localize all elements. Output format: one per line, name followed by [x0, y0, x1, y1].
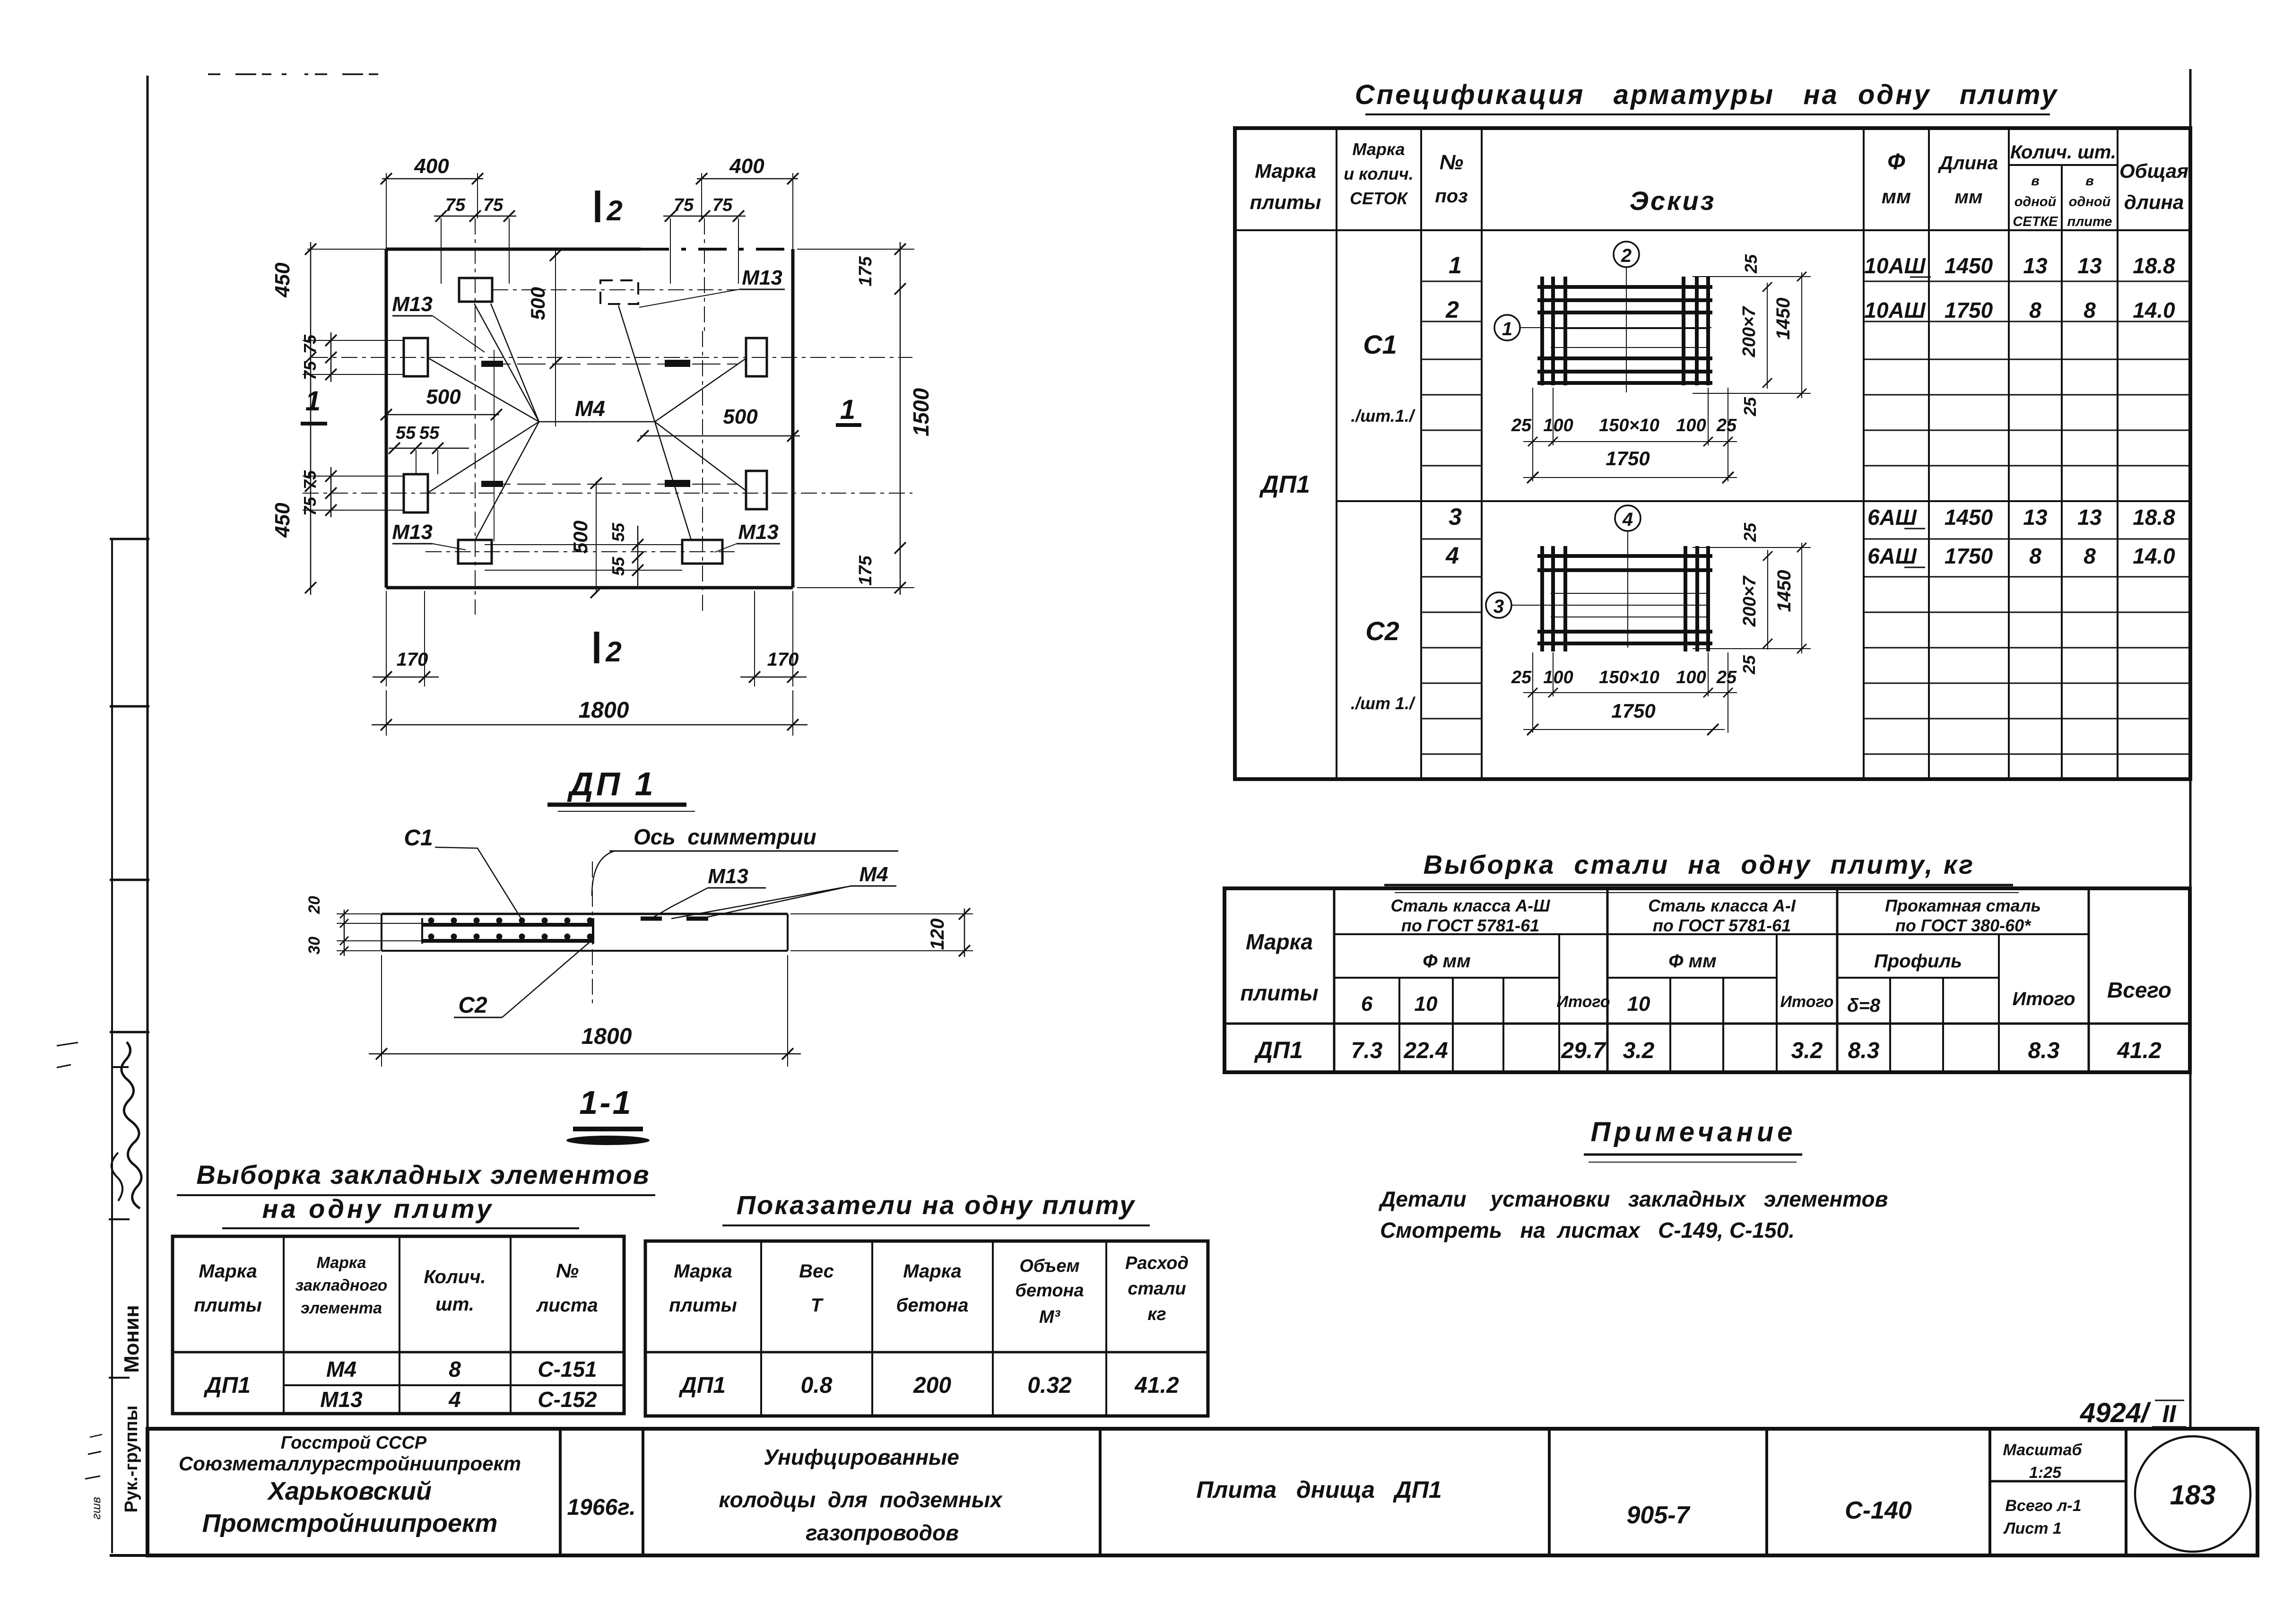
svg-text:10: 10 [1627, 992, 1650, 1016]
svg-text:Марка: Марка [1255, 160, 1316, 182]
svg-text:120: 120 [927, 919, 948, 950]
svg-text:Промстройниипроект: Промстройниипроект [202, 1509, 498, 1537]
svg-text:С1: С1 [1363, 330, 1397, 359]
svg-text:0.32: 0.32 [1027, 1373, 1072, 1398]
svg-text:ДП 1: ДП 1 [567, 765, 656, 802]
svg-text:Ось симметрии: Ось симметрии [634, 825, 816, 849]
svg-text:75: 75 [300, 496, 320, 516]
svg-text:1750: 1750 [1606, 447, 1650, 469]
svg-text:М4: М4 [326, 1357, 356, 1381]
svg-text:Ф мм: Ф мм [1668, 951, 1717, 972]
svg-text:./шт 1./: ./шт 1./ [1351, 694, 1416, 713]
svg-text:14.0: 14.0 [2133, 298, 2175, 322]
svg-text:Всего: Всего [2107, 978, 2171, 1002]
svg-text:25: 25 [1716, 416, 1737, 435]
svg-text:200: 200 [913, 1373, 951, 1398]
svg-text:25: 25 [1740, 522, 1760, 542]
svg-text:II: II [2162, 1400, 2177, 1428]
svg-text:одной: одной [2014, 194, 2057, 209]
svg-text:Итого: Итого [1556, 993, 1610, 1011]
svg-text:75: 75 [300, 334, 320, 354]
svg-text:С-151: С-151 [538, 1357, 597, 1381]
svg-text:3: 3 [1449, 504, 1462, 530]
svg-text:13: 13 [2077, 253, 2102, 278]
svg-text:200×7: 200×7 [1740, 575, 1760, 627]
svg-text:55: 55 [608, 522, 628, 542]
svg-text:8: 8 [2029, 544, 2041, 568]
svg-text:Ф мм: Ф мм [1423, 951, 1471, 972]
svg-text:8: 8 [449, 1357, 461, 1381]
svg-text:2: 2 [606, 195, 622, 226]
svg-text:400: 400 [729, 155, 764, 178]
svg-text:450: 450 [271, 262, 294, 298]
svg-text:С-140: С-140 [1845, 1497, 1912, 1524]
svg-text:8: 8 [2084, 298, 2096, 322]
svg-text:30: 30 [305, 937, 323, 955]
svg-text:М4: М4 [859, 863, 888, 886]
svg-text:Объем: Объем [1019, 1256, 1079, 1276]
svg-text:по ГОСТ 380-60*: по ГОСТ 380-60* [1895, 916, 2032, 935]
svg-text:25: 25 [1511, 668, 1532, 687]
svg-text:500: 500 [426, 385, 461, 408]
svg-text:13: 13 [2023, 505, 2048, 530]
svg-text:М13: М13 [708, 865, 748, 888]
svg-text:3.2: 3.2 [1623, 1038, 1655, 1063]
svg-text:Унифцированные: Унифцированные [764, 1445, 959, 1469]
svg-text:колодцы для подземных: колодцы для подземных [719, 1487, 1003, 1512]
svg-text:1750: 1750 [1945, 298, 1993, 322]
svg-text:25: 25 [1716, 668, 1737, 687]
svg-text:Профиль: Профиль [1874, 951, 1962, 972]
svg-text:100: 100 [1543, 668, 1573, 687]
svg-text:41.2: 41.2 [1134, 1373, 1179, 1398]
svg-text:1750: 1750 [1945, 544, 1993, 568]
svg-text:13: 13 [2077, 505, 2102, 530]
svg-text:плиты: плиты [194, 1295, 261, 1316]
svg-text:6: 6 [1361, 992, 1373, 1016]
svg-text:мм: мм [1954, 187, 1982, 208]
svg-text:в: в [2085, 174, 2094, 189]
svg-text:плиты: плиты [1250, 191, 1321, 213]
svg-text:длина: длина [2124, 191, 2184, 213]
svg-text:Марка: Марка [674, 1261, 732, 1282]
svg-text:1800: 1800 [579, 698, 629, 723]
svg-text:14.0: 14.0 [2133, 544, 2175, 568]
svg-text:Вес: Вес [799, 1261, 834, 1282]
svg-text:по ГОСТ 5781-61: по ГОСТ 5781-61 [1653, 916, 1791, 935]
svg-text:25: 25 [1741, 254, 1761, 274]
svg-text:75: 75 [300, 470, 320, 489]
svg-text:Масштаб: Масштаб [2003, 1441, 2083, 1459]
svg-text:500: 500 [569, 521, 591, 554]
svg-text:М4: М4 [575, 396, 605, 421]
svg-text:75: 75 [445, 195, 466, 215]
svg-text:Показатели на одну плиту: Показатели на одну плиту [737, 1190, 1136, 1220]
svg-text:ДП1: ДП1 [203, 1373, 251, 1398]
svg-text:41.2: 41.2 [2117, 1038, 2162, 1063]
svg-text:1450: 1450 [1774, 570, 1795, 612]
svg-text:Колич. шт.: Колич. шт. [2010, 142, 2116, 163]
svg-text:С2: С2 [1365, 616, 1399, 646]
svg-text:СЕТОК: СЕТОК [1350, 189, 1409, 208]
svg-text:6АШ: 6АШ [1867, 505, 1917, 530]
svg-text:500: 500 [723, 405, 758, 428]
svg-text:бетона: бетона [896, 1295, 969, 1316]
svg-text:ДП1: ДП1 [1254, 1037, 1303, 1063]
svg-text:10АШ: 10АШ [1864, 253, 1926, 278]
svg-text:1-1: 1-1 [579, 1084, 633, 1121]
svg-text:Сталь класса А-Ш: Сталь класса А-Ш [1390, 896, 1550, 915]
svg-text:на одну плиту: на одну плиту [262, 1194, 495, 1224]
svg-text:2: 2 [605, 636, 621, 668]
svg-text:75: 75 [674, 195, 694, 215]
svg-text:элемента: элемента [301, 1299, 382, 1317]
svg-text:100: 100 [1676, 668, 1706, 687]
svg-text:8: 8 [2029, 298, 2041, 322]
svg-text:18.8: 18.8 [2133, 253, 2175, 278]
svg-text:СЕТКЕ: СЕТКЕ [2013, 214, 2058, 229]
svg-text:М13: М13 [392, 521, 433, 544]
svg-text:8.3: 8.3 [1848, 1038, 1880, 1063]
svg-text:450: 450 [271, 503, 294, 538]
svg-text:плите: плите [2067, 214, 2112, 229]
svg-text:№: № [1440, 151, 1463, 174]
svg-text:400: 400 [414, 155, 449, 178]
svg-text:20: 20 [305, 896, 323, 914]
svg-text:500: 500 [527, 287, 549, 320]
svg-text:1966г.: 1966г. [567, 1495, 635, 1520]
svg-text:29.7: 29.7 [1561, 1038, 1606, 1063]
svg-text:листа: листа [536, 1295, 598, 1316]
svg-text:Выборка стали на одну плит: Выборка стали на одну плиту, кг [1424, 850, 1975, 879]
svg-text:в: в [2031, 174, 2040, 189]
svg-text:170: 170 [767, 649, 799, 670]
svg-text:ДП1: ДП1 [678, 1373, 726, 1398]
svg-text:по ГОСТ 5781-61: по ГОСТ 5781-61 [1401, 916, 1539, 935]
svg-text:кг: кг [1147, 1304, 1166, 1324]
svg-text:0.8: 0.8 [801, 1373, 833, 1398]
svg-text:75: 75 [483, 195, 504, 215]
svg-text:6АШ: 6АШ [1867, 544, 1917, 568]
svg-text:13: 13 [2023, 253, 2048, 278]
svg-text:Итого: Итого [2012, 989, 2075, 1009]
svg-text:стали: стали [1128, 1279, 1186, 1299]
svg-text:175: 175 [856, 256, 876, 286]
svg-text:Госстрой СССР: Госстрой СССР [281, 1433, 427, 1453]
svg-text:175: 175 [856, 555, 876, 585]
svg-text:150×10: 150×10 [1599, 668, 1659, 687]
svg-text:Колич.: Колич. [424, 1267, 486, 1287]
svg-text:Марка: Марка [903, 1261, 962, 1282]
svg-text:δ=8: δ=8 [1847, 995, 1881, 1016]
svg-text:25: 25 [1511, 416, 1532, 435]
svg-text:55: 55 [419, 423, 440, 443]
svg-text:1450: 1450 [1945, 253, 1993, 278]
svg-text:2: 2 [1445, 296, 1459, 323]
svg-text:75: 75 [712, 195, 733, 215]
svg-text:1750: 1750 [1611, 700, 1655, 722]
svg-text:1450: 1450 [1773, 298, 1794, 340]
svg-text:Общая: Общая [2119, 160, 2188, 182]
svg-text:Спецификация арматуры на: Спецификация арматуры на одну плиту [1355, 79, 2059, 110]
svg-text:поз: поз [1435, 186, 1467, 207]
svg-text:Расход: Расход [1125, 1253, 1189, 1273]
svg-text:Харьковский: Харьковский [267, 1477, 432, 1505]
svg-text:Марка: Марка [1352, 139, 1405, 159]
svg-text:3: 3 [1493, 596, 1504, 617]
svg-text:1800: 1800 [582, 1024, 632, 1049]
svg-text:905-7: 905-7 [1627, 1502, 1691, 1529]
svg-text:Марка: Марка [199, 1261, 257, 1282]
svg-text:Детали установки закладны: Детали установки закладных элементов [1378, 1187, 1888, 1211]
svg-text:С1: С1 [404, 825, 433, 851]
svg-text:Союзметаллургстройниипроект: Союзметаллургстройниипроект [179, 1452, 521, 1475]
svg-text:М13: М13 [742, 266, 782, 289]
svg-text:шт.: шт. [435, 1294, 474, 1315]
svg-text:Марка: Марка [317, 1254, 366, 1272]
svg-text:55: 55 [608, 556, 628, 576]
svg-text:183: 183 [2170, 1480, 2216, 1511]
svg-text:плиты: плиты [669, 1295, 737, 1316]
svg-text:закладного: закладного [295, 1277, 388, 1294]
svg-text:М13: М13 [392, 293, 433, 316]
svg-text:бетона: бетона [1015, 1281, 1084, 1301]
svg-text:4: 4 [1445, 542, 1459, 569]
svg-text:3.2: 3.2 [1791, 1038, 1823, 1063]
svg-text:22.4: 22.4 [1403, 1038, 1448, 1063]
svg-text:М³: М³ [1039, 1307, 1061, 1327]
svg-text:гшв: гшв [89, 1497, 103, 1520]
svg-text:4924/: 4924/ [2080, 1398, 2152, 1428]
svg-text:ДП1: ДП1 [1259, 471, 1310, 498]
svg-text:Прокатная сталь: Прокатная сталь [1885, 896, 2041, 915]
svg-text:С2: С2 [458, 993, 487, 1018]
svg-text:плиты: плиты [1241, 981, 1319, 1005]
svg-text:18.8: 18.8 [2133, 505, 2175, 530]
svg-text:Смотреть на листах С-149,: Смотреть на листах С-149, С-150. [1380, 1218, 1795, 1242]
svg-text:170: 170 [397, 649, 428, 670]
svg-text:1:25: 1:25 [2029, 1464, 2062, 1482]
svg-text:1: 1 [1449, 252, 1462, 278]
svg-text:1450: 1450 [1945, 505, 1993, 530]
svg-text:Всего л-1: Всего л-1 [2005, 1497, 2081, 1515]
svg-text:200×7: 200×7 [1739, 306, 1759, 358]
svg-text:4: 4 [1622, 509, 1633, 530]
svg-text:Монин: Монин [120, 1305, 143, 1373]
svg-text:мм: мм [1882, 185, 1911, 208]
svg-text:Рук.-группы: Рук.-группы [122, 1406, 141, 1513]
svg-text:25: 25 [1740, 397, 1760, 417]
svg-text:10АШ: 10АШ [1864, 298, 1926, 322]
svg-text:Т: Т [811, 1295, 824, 1316]
svg-text:М13: М13 [738, 521, 779, 544]
svg-text:газопроводов: газопроводов [806, 1520, 959, 1545]
svg-text:1: 1 [1502, 319, 1512, 339]
svg-text:С-152: С-152 [538, 1387, 597, 1412]
svg-text:100: 100 [1543, 416, 1573, 435]
svg-text:7.3: 7.3 [1351, 1038, 1383, 1063]
svg-text:10: 10 [1415, 992, 1438, 1016]
svg-text:Сталь класса А-I: Сталь класса А-I [1648, 896, 1796, 915]
svg-text:Плита днища ДП1: Плита днища ДП1 [1196, 1476, 1441, 1503]
svg-text:25: 25 [1739, 655, 1759, 675]
svg-text:./шт.1./: ./шт.1./ [1351, 406, 1416, 426]
svg-text:Ф: Ф [1887, 149, 1905, 174]
svg-text:№: № [556, 1259, 579, 1282]
svg-text:1: 1 [840, 394, 855, 425]
svg-text:100: 100 [1676, 416, 1706, 435]
svg-text:4: 4 [448, 1387, 461, 1412]
svg-text:Длина: Длина [1938, 153, 1998, 174]
svg-text:Выборка закладных элементов: Выборка закладных элементов [196, 1160, 650, 1190]
svg-text:1500: 1500 [909, 388, 933, 436]
svg-text:8.3: 8.3 [2028, 1038, 2060, 1063]
svg-text:55: 55 [396, 423, 416, 443]
svg-text:8: 8 [2084, 544, 2096, 568]
svg-text:2: 2 [1621, 245, 1632, 266]
svg-text:и колич.: и колич. [1344, 164, 1414, 183]
svg-text:150×10: 150×10 [1599, 416, 1659, 435]
svg-text:1: 1 [305, 386, 321, 417]
svg-text:Лист 1: Лист 1 [2003, 1520, 2062, 1537]
svg-text:Марка: Марка [1246, 929, 1313, 954]
svg-text:М13: М13 [320, 1387, 363, 1412]
svg-text:Примечание: Примечание [1590, 1117, 1796, 1147]
svg-text:одной: одной [2069, 194, 2111, 209]
svg-text:75: 75 [300, 361, 320, 380]
svg-text:Эскиз: Эскиз [1630, 186, 1716, 216]
svg-text:Итого: Итого [1780, 993, 1833, 1011]
